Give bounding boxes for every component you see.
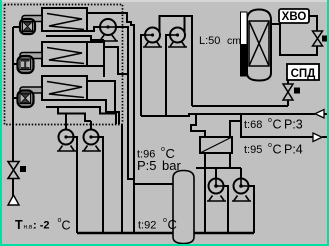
burner G1 — [20, 16, 42, 35]
storage tank — [173, 171, 194, 244]
wire HX bottom right to manifold — [229, 153, 231, 168]
XBO box — [279, 9, 309, 23]
wire pump1 outlet to header x=128 — [108, 26, 129, 28]
svg-text:С: С — [273, 143, 282, 157]
wire boiler2 branch to header — [104, 47, 128, 74]
wire bottom main line — [77, 232, 254, 234]
svg-text:cm: cm — [227, 35, 241, 47]
wire boiler2 bottom extension — [87, 65, 104, 67]
boiler K2 — [42, 42, 87, 66]
wire supply line — [241, 121, 313, 137]
wire hw pump right drop — [240, 168, 242, 186]
svg-text:P:3: P:3 — [284, 118, 303, 132]
boiler K3 — [42, 76, 87, 100]
wire fuel manifold — [12, 27, 14, 161]
svg-text:СПД: СПД — [291, 68, 316, 80]
wire recirc branch — [58, 107, 91, 121]
svg-text:о: о — [268, 117, 272, 124]
wire recirc pump left inlet — [65, 114, 67, 138]
wire hw pump right outlet — [241, 186, 254, 233]
wire burner1 stub — [13, 26, 20, 28]
pump N1 network left — [143, 28, 162, 48]
teal window borders — [0, 0, 2, 246]
svg-text:L:50: L:50 — [199, 35, 220, 47]
wire network pump right inlet — [166, 35, 178, 116]
svg-text:о: о — [161, 146, 165, 153]
wire network pump right riser — [184, 16, 186, 32]
wire hw pump left outlet — [216, 186, 228, 233]
wire SPD valve drain — [287, 100, 289, 106]
wire pump1 inlet staircase — [87, 27, 101, 31]
svg-text:P:5: P:5 — [137, 158, 157, 173]
pump P1 boiler circuit — [98, 19, 118, 41]
wire boiler3 right output — [87, 81, 115, 112]
wire deaerator feed — [271, 24, 317, 55]
svg-text:: -2: : -2 — [33, 220, 50, 232]
wire network pump left inlet — [141, 35, 153, 116]
wire boiler2 top output — [87, 41, 104, 43]
heat exchanger HX — [200, 137, 232, 153]
svg-text:Т: Т — [15, 218, 23, 232]
svg-text:bar: bar — [162, 158, 181, 173]
fuel valve — [8, 162, 26, 179]
wire discharge line to SPD valve — [192, 105, 288, 107]
svg-text:t:95: t:95 — [244, 144, 262, 156]
wire boiler1 top output — [87, 13, 135, 25]
boiler K1 — [42, 8, 87, 31]
wire XBO box to valve — [309, 16, 317, 31]
wire SPD box stem — [287, 80, 289, 84]
pump H2 hot water right — [232, 179, 251, 202]
wire tank inlet — [134, 183, 174, 185]
wire hw pump left drop — [215, 168, 217, 186]
deaerator vessel — [247, 10, 271, 81]
wire recirc pump right outlet — [91, 137, 103, 233]
wire return line — [188, 113, 315, 115]
pump H1 hot water left — [207, 179, 226, 202]
burner G2 — [18, 53, 43, 74]
return arrow to left — [315, 110, 327, 119]
supply arrow to right — [313, 133, 327, 142]
wire return header to pump suction — [141, 114, 189, 116]
wire hw pump manifold — [196, 167, 241, 169]
wire fuel below valve — [12, 178, 14, 196]
wire recirc pump right inlet — [90, 121, 92, 137]
svg-text:ХВО: ХВО — [282, 11, 307, 23]
svg-text:о: о — [268, 142, 272, 149]
wire drop x=122 — [121, 124, 123, 233]
XBO valve — [313, 31, 329, 46]
SPD box — [287, 64, 319, 80]
wire burner3 stub — [13, 97, 18, 99]
wire header x=128 down — [128, 27, 134, 179]
wire under boiler1 drain — [46, 36, 104, 40]
pump R2 recirculation right — [82, 130, 101, 152]
dotted boiler room boundary — [5, 5, 123, 125]
svg-text:t:68: t:68 — [244, 119, 262, 131]
svg-text:С: С — [168, 217, 177, 232]
wire under boiler3 drain staircase — [46, 107, 116, 124]
svg-text:о: о — [163, 217, 167, 224]
wire header x=135 — [133, 25, 135, 233]
wire HX right feed — [230, 114, 241, 137]
svg-text:С: С — [273, 118, 282, 132]
svg-text:P:4: P:4 — [284, 143, 303, 157]
wire recirc pump left outlet — [66, 137, 77, 233]
svg-text:t:92: t:92 — [138, 220, 156, 232]
pump R1 recirculation left — [57, 130, 76, 152]
SPD valve — [283, 84, 300, 100]
burner G3 — [18, 87, 43, 107]
wire HX bottom left down — [204, 153, 206, 233]
pump N2 network right — [168, 28, 187, 48]
wire burner2 stub — [13, 63, 18, 65]
fuel vent triangle — [8, 195, 19, 205]
svg-text:С: С — [62, 219, 71, 233]
wire boiler3 bottom staircase — [87, 100, 119, 124]
wire HX left feed staircase — [191, 114, 205, 137]
wire network pumps discharge U — [160, 16, 193, 106]
wire riser x=104 — [103, 40, 105, 77]
level gauge — [241, 12, 248, 76]
